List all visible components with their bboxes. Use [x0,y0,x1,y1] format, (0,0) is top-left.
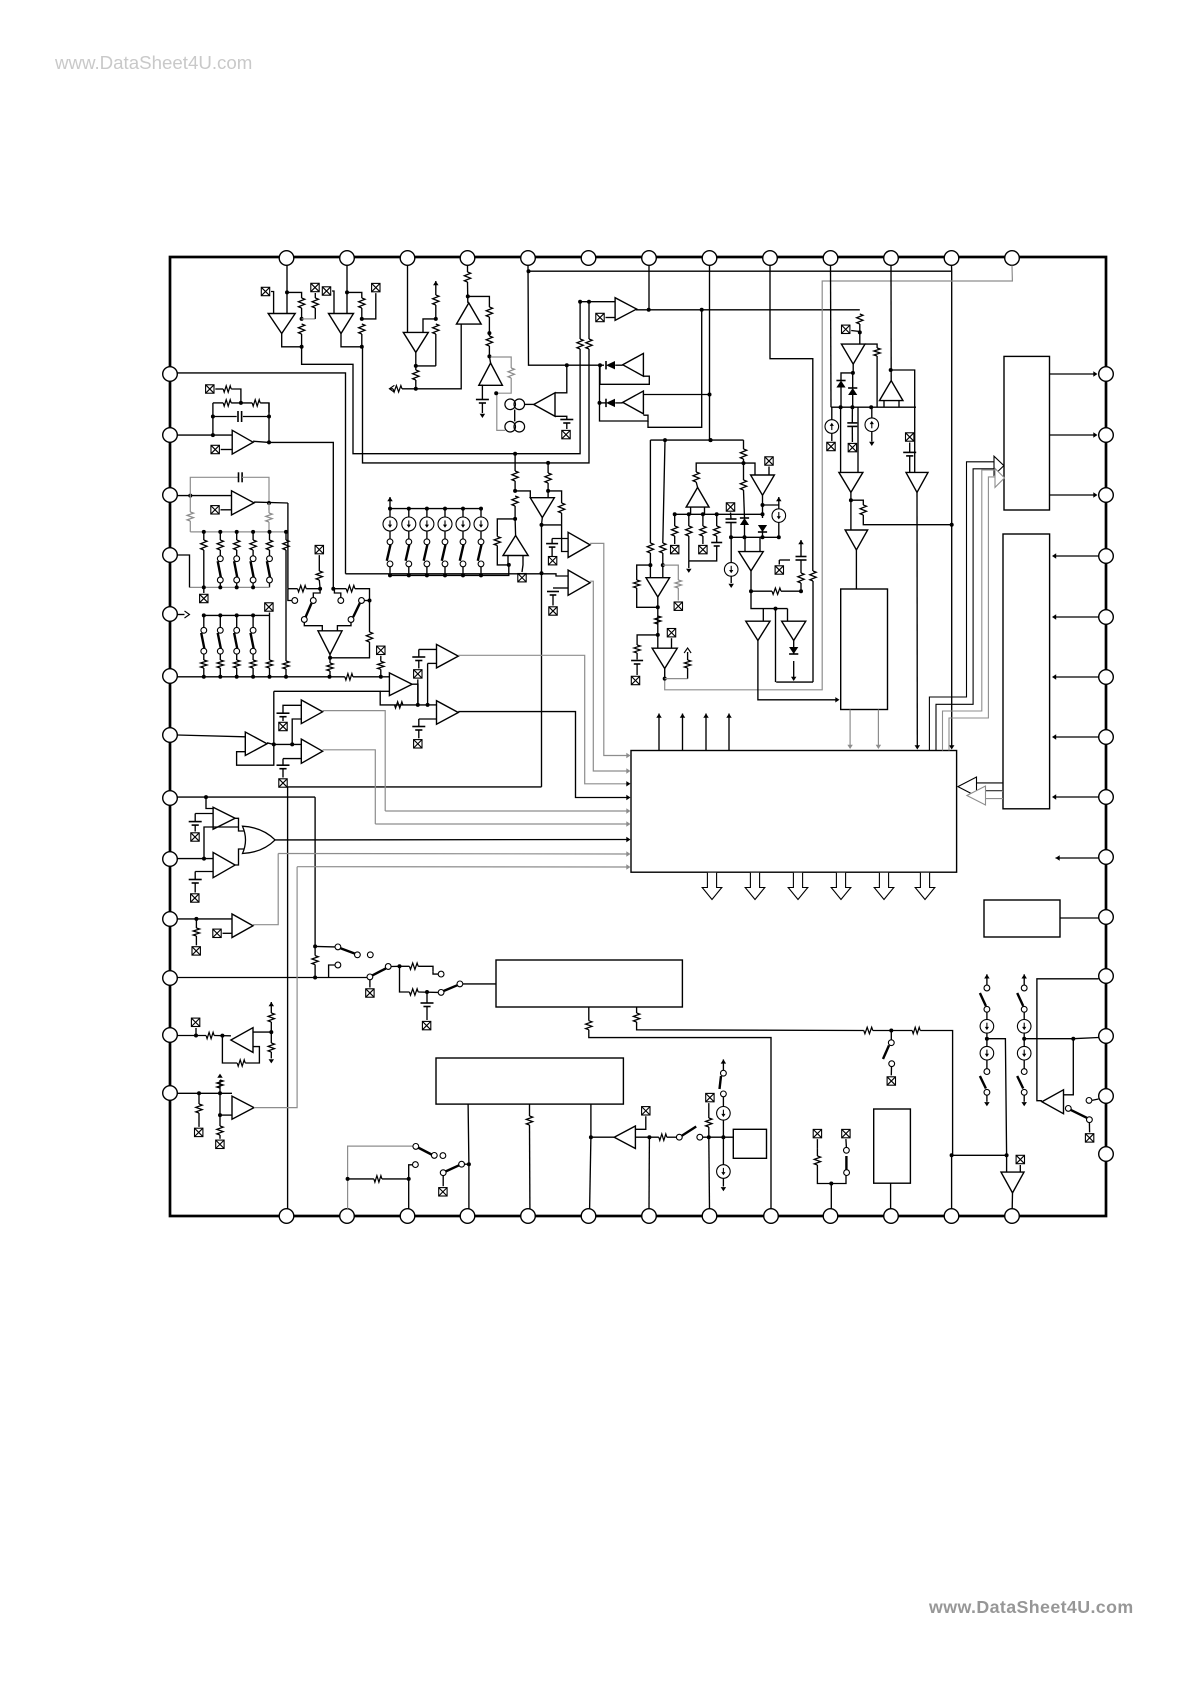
wire V left [817,1165,831,1184]
wire gray col2 [677,588,679,601]
wire X21 down [269,613,271,616]
wire ladder4 b [462,531,464,539]
wire R19 down [863,515,951,525]
current source I14 [1017,1020,1031,1034]
current source I15 [980,1046,994,1060]
switch SW14 contact b [250,648,256,654]
bias terminal X41 [195,1128,203,1136]
resistor R39 gray [187,512,193,521]
serial interface block U13 right [1003,534,1050,809]
wire Q res2 [382,1178,409,1180]
node col0 [985,1037,989,1041]
bus arrow shaft B2 [949,477,996,751]
switch SW5 contact a [460,539,466,545]
op-amp A6 [534,393,555,417]
wire up block 706 [705,714,707,751]
wire pad-374 route [177,373,345,574]
op-amp A7 [623,353,644,376]
wire A19 out [793,641,795,655]
node A3a [434,317,438,321]
node A4a [466,294,470,298]
bias terminal X35 [279,722,287,730]
wire R2 down [301,334,303,347]
resistor R31 [512,471,518,481]
node F c [648,563,652,567]
wire ladder1 a [408,509,410,518]
wire Z riser2 [292,719,301,744]
bias terminal X36 [279,779,287,787]
wire gray side L [189,496,191,512]
wire X17 to R36 [215,388,223,390]
resistor R26 [686,526,692,536]
wire comb2 [702,514,704,526]
resistor R59 [312,956,318,965]
wire buf3 upper [428,704,437,706]
wire buf1 fb [412,684,418,705]
wire A13 out [916,492,918,747]
capacitor C11 [412,727,425,731]
arrow U12 out 435 [1093,432,1097,437]
wire C14 down [636,664,638,675]
wire SW21 xbox [369,980,371,988]
op-amp A41 [1001,1172,1024,1193]
capacitor C17 [277,713,290,717]
switch SW14 contact a [250,627,256,633]
switch SW11 contact b [201,648,207,654]
switch SW7x lever [234,561,237,577]
switch SW13 lever [234,633,237,649]
wire buf2 lower [428,662,437,664]
resistor R42 [283,661,289,669]
wire A41 out [1011,1193,1013,1209]
node Q c [467,1162,471,1166]
pin pad top 8 [702,251,717,266]
node I a [513,489,517,493]
switch SW21 contact b [385,964,391,970]
wire A15 base2 [704,507,706,514]
decoder block U12 right top [1004,356,1050,510]
wire A3 output [416,352,436,366]
bias terminal X9 [827,442,835,450]
wire U12 out 495 [1050,494,1097,496]
wire to diode col R [852,373,854,388]
pin pad left 12 [163,1028,178,1043]
resistor R41x [234,540,240,550]
current source I1 [825,420,839,434]
wire A23 out [254,501,288,504]
resistor R41x [283,540,289,550]
wire A12 in R [857,407,859,472]
op-amp A8 [623,391,644,414]
node O a [313,944,317,948]
node M d [267,415,271,419]
resistor R12 [464,272,470,282]
wire D1 left [600,364,604,366]
op-amp A24 [318,631,342,655]
wire comb tail a [674,536,676,544]
bias terminal X15 [775,566,783,574]
node ladder [461,507,465,511]
wire U col2 b [722,1097,724,1107]
switch SW30 contact b [1021,1089,1027,1095]
wire U15 pin2 [636,1007,638,1013]
resistor R69 [586,1021,592,1030]
wire col650 down [649,440,651,543]
pin pad top 2 [340,251,355,266]
node R a [194,1034,198,1038]
arrow stub left [389,385,394,392]
resistor R63 [237,1060,245,1066]
wire reg out2 [877,710,879,747]
current source I13 [980,1020,994,1034]
switch SW13 contact a [234,627,240,633]
capacitor C9 [239,472,243,482]
node bank2b [251,613,255,617]
wire A32 cap [194,814,196,822]
wire col0 e [986,1095,988,1102]
wire U col down [708,1137,711,1209]
buffer A36 [301,739,322,763]
resistor R60 [409,963,418,969]
resistor R76 [814,1156,820,1165]
node pad8 tap [708,393,712,397]
pin pad bottom 7 [642,1209,657,1224]
node I f [507,563,511,567]
wire bank2 sw b [203,654,205,660]
wire comb tail c [702,536,704,544]
wire R xbox [195,1028,197,1036]
node X d [368,599,372,603]
wire pad11 down [890,266,892,381]
resistor R71 [864,1027,873,1033]
wire pad-1093 [177,1092,232,1094]
wire O cap [426,992,428,1003]
pin pad right 8 [1099,790,1114,805]
node out b [700,308,704,312]
pin pad top 5 [521,251,536,266]
wire bank1 drop [236,532,238,540]
resistor R16 [810,571,816,581]
node A1b [300,317,304,321]
switch SW21 contact open [335,962,341,968]
wire O res2 [314,965,316,978]
bias terminal X28 [674,602,682,610]
arrow block in3 [626,781,630,786]
current source I10 [474,517,488,531]
wire C15 down [194,825,196,831]
resistor R41x [266,540,272,550]
wire buf3 out [458,712,628,798]
pin pad top 4 [460,251,475,266]
wire C1 down [481,403,483,413]
op-amp A25 [389,673,412,696]
pin pad top 10 [823,251,838,266]
node N a [204,795,208,799]
node mainbus [218,675,222,679]
wire S d4 [219,1115,221,1126]
node M a [211,433,215,437]
wire pad10 down [830,266,833,408]
wire V left2 [816,1149,818,1156]
switch SW28 contact a [1021,985,1027,991]
capacitor C3 [903,452,916,456]
wire A8 loop [600,403,649,421]
capacitor C12 [546,544,558,548]
wire gray stub [665,678,688,680]
arrow U13 in 797 [1052,794,1056,799]
switch SW2 contact a [406,539,412,545]
wire R24 wire [743,463,745,480]
node ladder [443,507,447,511]
wire O row2b [400,965,410,967]
fat arrow down 798 [788,873,808,900]
current source I5 [383,517,397,531]
wire A4 feedback [468,296,490,307]
node bank1 [268,530,272,534]
resistor R7 net2 [586,339,592,349]
switch SW3 contact b [424,561,430,567]
wire O cap2 [426,1007,428,1021]
wire amp in [591,1136,614,1138]
node bank1 [218,530,222,534]
node F bus [729,535,733,539]
wire col665 down [663,440,665,543]
wire S d2 [198,1113,200,1127]
node net2 top [587,300,591,304]
op-amp A31 [652,648,677,668]
wire R3 down [314,308,316,319]
switch SW27 lever [980,993,986,1006]
node Q b [407,1177,411,1181]
resistor R27 [700,526,706,536]
arrow gray reg out2 [876,745,881,749]
pin pad bottom 5 [521,1209,536,1224]
wire A35 out gray [323,711,386,811]
resistor R29 [772,588,781,594]
wire pad7 down [648,266,650,310]
switch SW31 contact b [1087,1117,1093,1123]
arrow down col1 [1021,1102,1026,1106]
pin pad right 11 [1099,969,1114,984]
wire A17 out [750,571,752,591]
bus net2 [362,347,589,463]
wire bank2 drop [236,615,238,627]
resistor R47 [298,586,307,592]
bias terminal X4 [372,283,380,291]
bus arrow head B [995,469,1005,488]
wire P drop2 [195,936,197,945]
node A4c [487,354,491,358]
resistor R53 gray [675,580,681,588]
wire colA tap [987,1039,1007,1156]
arrow block in4 [626,795,630,800]
node A3c [414,387,418,391]
arrow A13 into block [915,745,920,749]
wire stub up [687,668,689,679]
arrow up block 729 [726,714,731,718]
wire to D2 [600,402,607,404]
wire bank1 drop [219,532,221,540]
resistor R55 [634,645,640,653]
pin pad bottom 10 [823,1209,838,1224]
wire col1 a [1023,974,1025,985]
bus net1 up [579,302,581,339]
bias terminal X40 [191,1018,199,1026]
wire A29 cap [552,595,554,606]
current source I9 [456,517,470,531]
node col1 [1022,1037,1026,1041]
wire U15 pin2b [637,1022,864,1031]
wire D1 to A7 [615,364,623,366]
capacitor C4 [847,423,857,427]
wire bank1 sw [252,550,254,556]
node F h [749,589,753,593]
wire R37 path [213,402,223,404]
wire R49 down [330,642,369,658]
node D2a [849,498,853,502]
bias terminal X30 [667,629,675,637]
wire sw15 riser a [313,589,320,598]
node rail a [839,405,843,409]
wire 287 down [287,787,289,1209]
wire bank2 drop [219,615,221,627]
wire bank1 sw [236,550,238,556]
node rail b [850,405,854,409]
wire A36 cap [282,759,284,766]
wire O row3b [418,991,438,993]
wire xsw rail2 [333,588,346,590]
wire R20 down [649,553,651,565]
node bank2 [251,585,255,589]
resistor R5 [359,324,365,334]
switch SW25 lever [720,1076,722,1089]
resistor R45 [345,674,353,680]
wire bank1 drop [252,532,254,540]
node buf b [426,703,430,707]
wire P drop [195,919,197,928]
switch SW22 contact top [438,971,444,977]
wire gray R15 down [497,378,511,430]
node U a [589,1135,593,1139]
node ladderb [461,573,465,577]
wire A33 to OR [235,849,244,865]
diode D5 [740,518,749,525]
node bank1 [235,530,239,534]
wire A10 out [852,364,854,373]
block U17 bottom right [874,1109,911,1183]
wire sw16 link [364,600,369,602]
node A2b [360,317,364,321]
switch SW17 contact b [431,1153,437,1159]
arrow into block [949,745,954,749]
wire A33 lower in [195,871,213,873]
wire R col a [270,1002,272,1013]
wire bank2 col5b [269,668,271,677]
pin pad right 3 [1099,488,1114,503]
switch SW24 contact a [676,1134,682,1140]
wire to U15 [463,983,496,985]
resistor R52 [634,580,640,588]
pin pad right 9 [1099,850,1114,865]
wire buf1 lower [274,691,428,705]
switch SW3 contact a [424,539,430,545]
wire R17 down [859,324,861,344]
wire R8 down [435,305,437,319]
wire net1 drop [514,454,516,471]
wire X15 stub [778,560,780,565]
resistor R33 [545,473,551,483]
wire ladder3 b [444,531,446,539]
bias terminal X16 [518,574,526,582]
wire pad-555 feed [177,555,189,587]
wire O res [314,946,316,955]
bias terminal X33 [192,947,200,955]
wire ladder2 b [426,531,428,539]
pin pad bottom 6 [581,1209,596,1224]
wire gray col [663,565,679,580]
wire R24 down [744,490,745,518]
wire U13 in 556 [1054,555,1099,557]
wire A28 cap b [551,547,553,556]
pin pad top 7 [642,251,657,266]
wire A9 output long [637,308,860,311]
pin pad right 6 [1099,670,1114,685]
node mainbus [268,675,272,679]
node M c [211,415,215,419]
op-amp A23 [232,491,255,515]
wire link 287-541 [288,786,542,788]
wire pad-798 [177,796,315,798]
switch SW28 contact b [1021,1006,1027,1012]
diode D2 [606,399,615,407]
switch SW17 contact a [413,1144,419,1150]
buffer A32 [213,807,235,829]
OR gate G1 [243,826,276,853]
resistor R41x [201,540,207,550]
node M f [188,494,192,498]
wire U12 out 374 [1050,373,1097,375]
wire gray in5 [385,810,628,812]
current source I6 [402,517,416,531]
wire S lower in [220,1114,232,1116]
wire X11 link [744,463,756,475]
node F i [799,589,803,593]
wire I2 down [871,432,873,442]
pin pad right 4 [1099,549,1114,564]
wire sw15 riser b [288,589,292,601]
wire bank2 bus gray [190,586,270,588]
bus arrow head D [967,786,986,805]
wire A21 stub1 [507,556,509,565]
pin pad bottom 3 [400,1209,415,1224]
diode D4 [848,388,857,395]
node M g [267,501,271,505]
wire R1 to node [301,308,303,319]
wire col0 d [986,1060,988,1069]
wire reg out1 [849,710,851,747]
switch SW13 contact b [234,648,240,654]
op-amp A14 [845,530,868,550]
wire buf3 capdn [418,730,420,738]
bus arrow shaft C2 [976,790,1003,792]
wire main bus [177,676,345,678]
wire A31 in L [657,635,659,648]
wire U col2 d [722,1178,724,1186]
wire ladder arrow [389,497,391,509]
bias terminal X12 [671,545,679,553]
node bus403 [598,401,602,405]
wire U16 pin2 [529,1104,531,1116]
